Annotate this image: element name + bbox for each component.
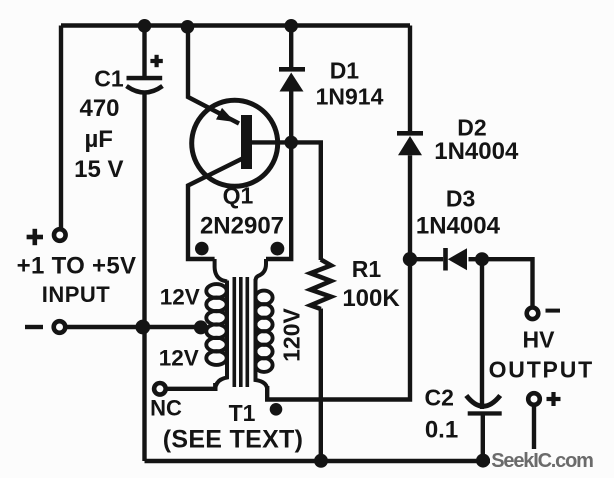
wire D1 cathode to base node (289, 91, 293, 142)
transformer T1 primary winding loop 1 (206, 284, 226, 298)
transformer T1 primary top post (215, 259, 227, 282)
svg-text:SeekIC.com: SeekIC.com (491, 450, 593, 472)
junction dot input minus / C1 wire (135, 320, 150, 335)
transistor Q1 body circle (192, 100, 278, 186)
transistor Q1 base bar (241, 115, 252, 169)
svg-text:1N4004: 1N4004 (416, 213, 501, 240)
label C1 polarity plus (150, 59, 162, 63)
svg-text:OUTPUT: OUTPUT (489, 357, 594, 383)
wire top rail (61, 23, 410, 27)
svg-text:C1: C1 (94, 66, 124, 92)
junction dot D2/D3 node (403, 252, 417, 266)
capacitor C1 top plate (127, 76, 163, 81)
transformer T1 primary winding loop 3 (206, 311, 226, 325)
transformer T1 secondary winding loop 2 (255, 304, 272, 318)
wire D3 cathode to output node (469, 257, 483, 261)
svg-text:1N4004: 1N4004 (434, 138, 519, 165)
svg-text:D1: D1 (330, 58, 360, 84)
transformer T1 primary winding loop 2 (206, 298, 226, 312)
svg-text:µF: µF (84, 126, 113, 153)
wire D1 anode to top rail (289, 26, 293, 68)
label input plus sign (27, 235, 43, 240)
wire D2 bottom lead (408, 155, 412, 259)
wire C2 top lead (480, 259, 484, 409)
junction dot top rail / D1 (284, 19, 298, 33)
wire bottom rail (145, 459, 535, 463)
transformer T1 secondary winding loop 1 (255, 291, 272, 305)
terminal - input (54, 321, 66, 333)
svg-text:120V: 120V (279, 307, 305, 361)
terminal + input (54, 229, 66, 241)
svg-text:+1 TO +5V: +1 TO +5V (17, 253, 137, 280)
capacitor C1 curved plate (127, 86, 163, 93)
svg-text:T1: T1 (229, 400, 256, 426)
diode D1 cathode bar (279, 67, 305, 72)
diode D1 triangle (280, 73, 304, 92)
wire NC terminal to primary bottom (167, 383, 216, 389)
label HV plus sign (547, 397, 561, 401)
wire left input drop (59, 26, 63, 229)
junction dot D3 / C2 / HV node (475, 252, 489, 266)
terminal HV minus (527, 308, 539, 320)
svg-text:D3: D3 (446, 186, 475, 212)
terminal NC (154, 383, 166, 395)
transformer T1 secondary winding loop 6 (255, 358, 272, 372)
wire base lead (252, 140, 291, 144)
watermark knockout (490, 449, 594, 470)
wire D2/D3 node to D3 anode (410, 257, 443, 261)
transformer T1 secondary winding loop 5 (255, 345, 272, 359)
wire C1 top lead (142, 26, 146, 77)
transformer T1 secondary phasing dot (271, 242, 285, 256)
svg-text:1N914: 1N914 (316, 84, 384, 110)
transformer T1 secondary spine (256, 279, 268, 389)
svg-text:12V: 12V (159, 345, 199, 370)
diode D2 triangle (398, 136, 422, 155)
wire D2 top lead (408, 26, 412, 132)
wire emitter lead (188, 26, 239, 124)
junction dot center tap (194, 320, 208, 334)
transformer T1 primary winding loop 4 (206, 324, 226, 338)
wire output node to HV minus terminal (482, 259, 533, 307)
svg-text:470: 470 (79, 95, 119, 122)
svg-text:100K: 100K (342, 285, 400, 312)
wire HV+ terminal drop (532, 406, 536, 462)
svg-text:12V: 12V (160, 285, 200, 310)
svg-text:INPUT: INPUT (42, 282, 111, 307)
svg-text:R1: R1 (352, 256, 382, 282)
transformer T1 core bar 3 (246, 277, 250, 387)
junction dot top rail / emitter (181, 20, 195, 34)
wire input minus to center tap (67, 325, 202, 329)
label HV minus sign (546, 309, 561, 313)
transformer T1 secondary winding loop 4 (255, 331, 272, 345)
diode D3 cathode bar (443, 248, 448, 271)
wire R1 bottom to bottom rail (319, 309, 323, 462)
svg-text:D2: D2 (457, 115, 486, 141)
svg-text:(SEE TEXT): (SEE TEXT) (163, 426, 304, 454)
junction dot top rail / C1 (138, 19, 152, 33)
transformer T1 core bar 2 (239, 277, 243, 387)
transformer T1 bottom phasing dot (270, 403, 283, 416)
diode D3 triangle (448, 248, 467, 270)
transformer T1 primary spine (215, 281, 227, 389)
transformer T1 secondary winding loop 3 (255, 318, 272, 332)
svg-text:2N2907: 2N2907 (200, 213, 284, 240)
wire D2/D3 node down to transformer secondary bottom (267, 259, 410, 399)
svg-text:0.1: 0.1 (425, 417, 458, 444)
wire base node to secondary top (266, 142, 291, 259)
svg-text:15 V: 15 V (74, 156, 123, 183)
svg-text:C2: C2 (424, 385, 453, 411)
svg-text:NC: NC (150, 396, 182, 421)
resistor R1 zigzag (311, 260, 332, 310)
transformer T1 core bar 1 (233, 277, 237, 387)
wire C2 bottom lead (481, 416, 485, 462)
diode D2 cathode bar (397, 131, 423, 136)
transformer T1 secondary top post (256, 259, 267, 281)
wire C1 bottom lead down to bottom rail (142, 92, 146, 461)
transformer T1 primary phasing dot (195, 242, 209, 256)
svg-text:HV: HV (523, 327, 556, 353)
junction dot C2 / bottom rail (476, 454, 490, 468)
svg-text:Q1: Q1 (223, 183, 254, 209)
label input minus sign (25, 325, 43, 329)
transformer T1 primary winding loop 5 (206, 338, 226, 352)
transformer T1 primary winding loop 6 (206, 351, 226, 365)
terminal HV plus (528, 393, 540, 405)
junction dot base node (284, 136, 298, 150)
wire collector lead to transformer primary top (188, 157, 246, 259)
wire base node to R1 top (291, 142, 321, 260)
capacitor C2 curved plate (466, 396, 500, 407)
transistor Q1 emitter arrowhead (216, 108, 235, 122)
junction dot R1 / bottom rail (314, 454, 328, 468)
capacitor C2 bottom plate (468, 411, 502, 415)
